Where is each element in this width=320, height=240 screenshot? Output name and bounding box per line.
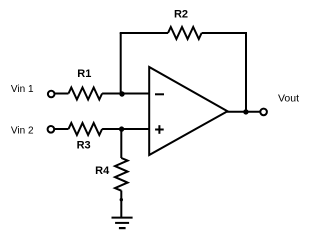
resistor R2 (168, 27, 202, 39)
wire: R1 to op-amp inverting input (102, 93, 150, 95)
svg-text:R1: R1 (77, 68, 91, 80)
resistor R1 (69, 88, 103, 100)
terminal Vin 2 (open circle) (48, 126, 55, 133)
node: R4-to-ground connection dot (120, 198, 123, 201)
node: inverting input junction dot (119, 91, 124, 96)
svg-text:Vout: Vout (278, 93, 299, 105)
wire: feedback left vertical (inverting node up to R2) (120, 33, 122, 94)
op-amp U1 non-inverting pin mark (+) horizontal stroke (155, 129, 164, 131)
wire: feedback right vertical down to output node (245, 32, 247, 112)
wire: Vin2 terminal to R3 (55, 128, 69, 130)
wire: feedback top-right segment from R2 (202, 32, 247, 34)
wire: Vin1 terminal to R1 (55, 93, 69, 95)
op-amp U1 (149, 67, 227, 155)
op-amp U1 inverting pin mark (-) (155, 93, 164, 95)
terminal Vout (open circle) (260, 109, 267, 116)
wire: R3 to op-amp non-inverting input (102, 128, 150, 130)
op-amp U1 non-inverting pin mark (+) vertical stroke (158, 125, 160, 134)
svg-text:R3: R3 (77, 139, 91, 151)
wire: R4 to ground (120, 191, 122, 218)
svg-text:Vin 2: Vin 2 (11, 126, 34, 137)
resistor R3 (69, 123, 103, 135)
node: output junction dot (243, 109, 248, 114)
wire: feedback top-left segment to R2 (120, 32, 168, 34)
wire: op-amp output to Vout terminal (227, 111, 260, 113)
terminal Vin 1 (open circle) (48, 91, 55, 98)
resistor R4 (115, 158, 128, 191)
svg-text:Vin 1: Vin 1 (11, 84, 34, 95)
svg-text:R2: R2 (174, 9, 188, 21)
node: non-inverting input junction dot (119, 126, 124, 131)
svg-text:R4: R4 (95, 165, 110, 177)
ground (112, 218, 133, 229)
wire: non-inverting node down to R4 (120, 128, 122, 158)
